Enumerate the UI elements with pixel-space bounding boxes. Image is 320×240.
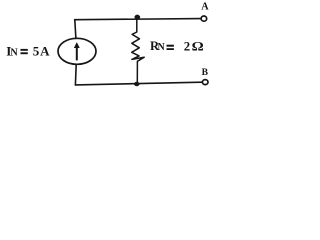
svg-text:N: N	[158, 42, 166, 53]
terminal B circle	[202, 80, 208, 85]
wire bottom horizontal	[75, 82, 201, 85]
current source U1 ellipse	[58, 38, 96, 64]
label IN = 5 A	[6, 44, 50, 59]
svg-text:N: N	[10, 48, 18, 59]
wire top horizontal	[75, 19, 201, 20]
terminal A circle	[201, 16, 207, 21]
svg-text:B: B	[202, 67, 209, 78]
svg-text:Ω: Ω	[192, 40, 204, 54]
svg-text:A: A	[40, 44, 50, 59]
wire source top stub	[75, 20, 76, 39]
svg-text:A: A	[201, 2, 209, 13]
svg-text:5: 5	[33, 44, 40, 59]
node junction top	[135, 15, 140, 19]
resistor RN zigzag	[132, 18, 145, 85]
label RN = 2 ohm	[150, 39, 204, 54]
node junction bottom	[134, 82, 139, 86]
arrow of current source	[74, 43, 79, 60]
svg-text:2: 2	[184, 40, 190, 54]
wire source bottom stub	[74, 64, 77, 85]
